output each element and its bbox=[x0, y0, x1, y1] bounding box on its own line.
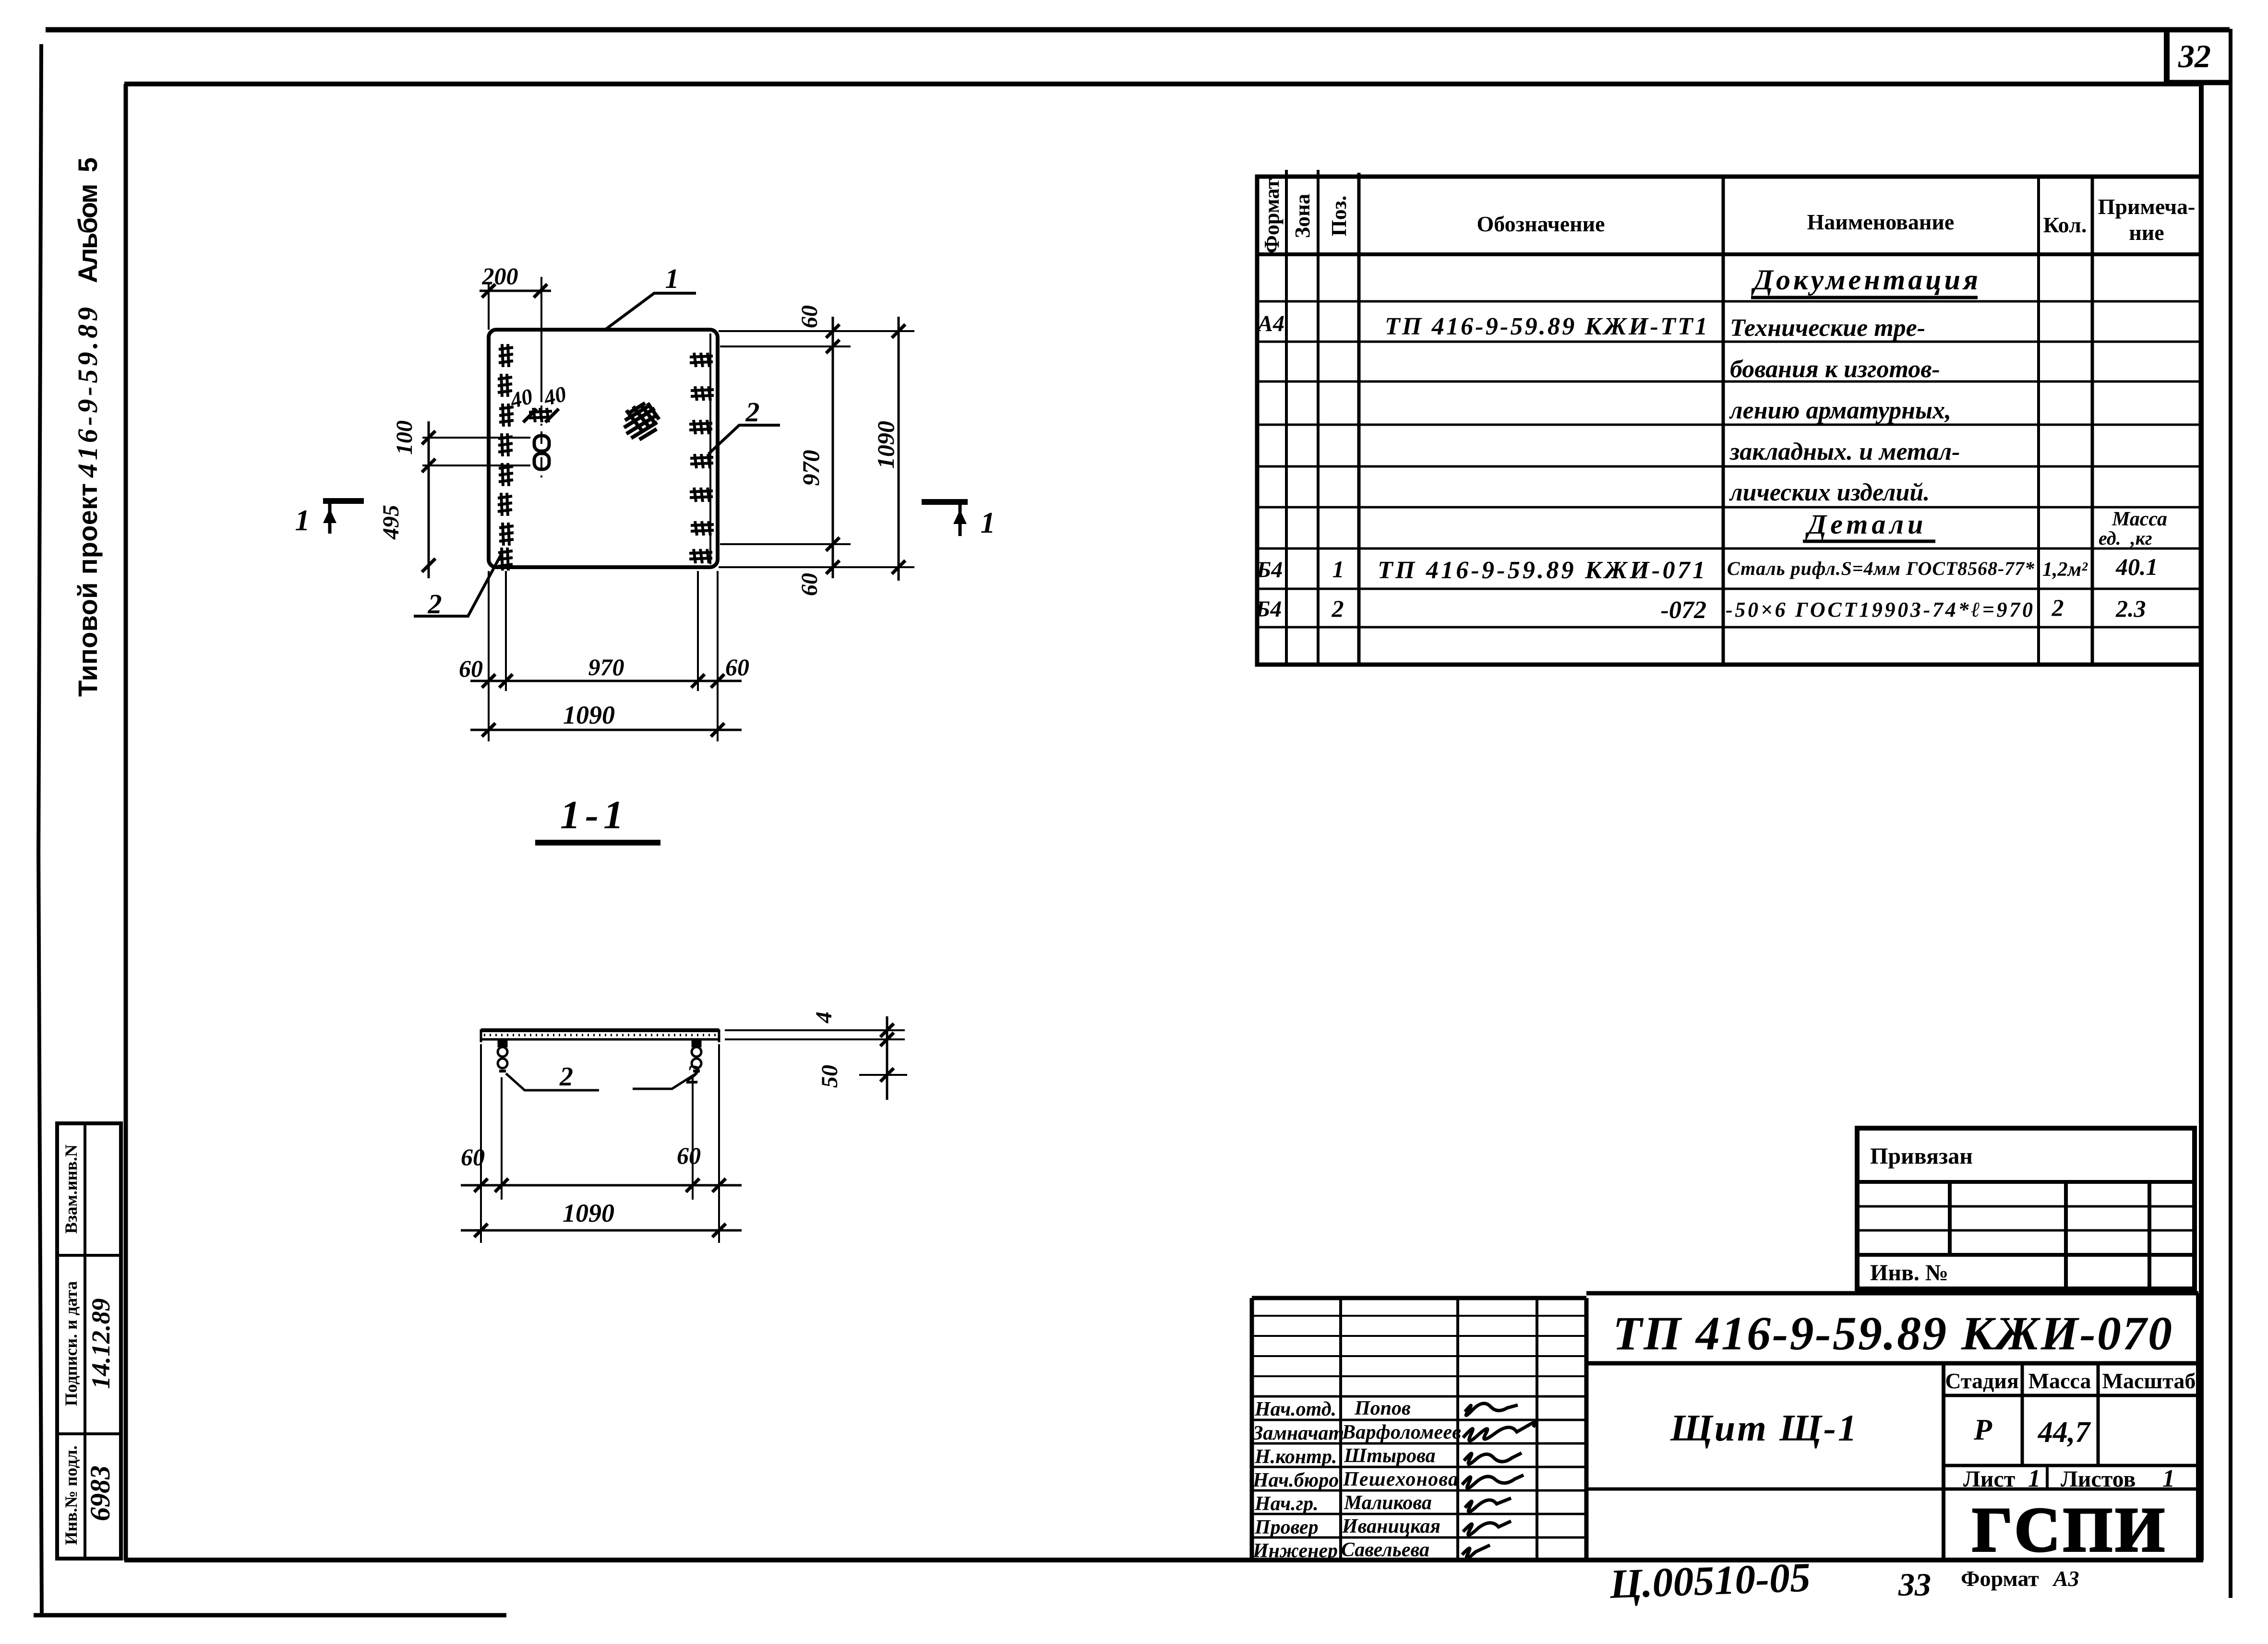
paper edge left line bbox=[38, 44, 42, 1616]
title block signature rows (names) bbox=[1252, 1397, 1461, 1562]
dim 1090 (bottom outer) bbox=[470, 701, 742, 737]
section leader 2 right bbox=[633, 1060, 700, 1090]
svg-text:Обозначение: Обозначение bbox=[1476, 212, 1605, 236]
leader 2 (plan bottom-left, pos.2) bbox=[414, 552, 503, 619]
centreline through embedded part bbox=[540, 277, 542, 482]
spec row: Detali heading and Massa ed kg bbox=[1803, 508, 2167, 549]
svg-text:Зона: Зона bbox=[1291, 194, 1314, 238]
svg-text:2: 2 bbox=[428, 588, 442, 619]
svg-text:ние: ние bbox=[2129, 220, 2164, 245]
section plate (pos.1) bbox=[481, 1029, 719, 1042]
svg-text:60: 60 bbox=[677, 1142, 701, 1169]
svg-text:Б4: Б4 bbox=[1255, 596, 1282, 622]
svg-text:А3: А3 bbox=[2052, 1566, 2079, 1591]
svg-text:1,2м²: 1,2м² bbox=[2042, 559, 2088, 581]
svg-text:Технические тре-: Технические тре- bbox=[1730, 314, 1925, 342]
svg-text:Детали: Детали bbox=[1805, 509, 1927, 540]
sheet number box (page 32) bbox=[2165, 30, 2231, 83]
leader 2 (plan right, pos.2) bbox=[708, 396, 780, 454]
svg-text:Б4: Б4 bbox=[1256, 557, 1283, 583]
svg-text:416-9-59.89: 416-9-59.89 bbox=[72, 307, 103, 478]
svg-text:1090: 1090 bbox=[872, 421, 899, 469]
svg-text:Провер: Провер bbox=[1254, 1516, 1319, 1538]
dim 60/970/60 (bottom inner) bbox=[459, 571, 749, 741]
title block name Shchit Shch-1 bbox=[1670, 1407, 1857, 1449]
svg-text:1: 1 bbox=[665, 263, 679, 294]
svg-text:Масштаб: Масштаб bbox=[2102, 1369, 2196, 1393]
svg-text:ГСПИ: ГСПИ bbox=[1972, 1494, 2168, 1565]
centre hatched patch bbox=[624, 403, 659, 440]
svg-text:Стадия: Стадия bbox=[1945, 1369, 2018, 1393]
svg-text:лических изделий.: лических изделий. bbox=[1729, 479, 1930, 506]
svg-text:44,7: 44,7 bbox=[2038, 1416, 2092, 1449]
panel plate outline (pos.1) bbox=[489, 330, 718, 567]
svg-text:Р: Р bbox=[1973, 1414, 1992, 1446]
left margin rotated text: Tipovoy proekt 416-9-59.89 Albom 5 bbox=[72, 157, 103, 697]
section title 1-1 bbox=[535, 793, 660, 843]
title block handwritten signatures bbox=[1462, 1404, 1536, 1558]
svg-text:2: 2 bbox=[1332, 595, 1344, 622]
svg-text:Попов: Попов bbox=[1354, 1397, 1411, 1419]
dim 200 (top) bbox=[480, 262, 551, 330]
spec row: Dokumentaciya heading bbox=[1751, 264, 1981, 298]
section dim 4 / 50 (right) bbox=[725, 1012, 907, 1100]
spec row: pos.2 -072 strap 50x6 bbox=[1255, 594, 2146, 624]
svg-text:200: 200 bbox=[482, 262, 518, 289]
svg-text:60: 60 bbox=[797, 573, 822, 596]
svg-text:60: 60 bbox=[725, 654, 749, 680]
svg-text:970: 970 bbox=[588, 654, 624, 680]
right anchor weld marks (pos.2) bbox=[689, 353, 714, 563]
dim 100 / 495 (left side) bbox=[378, 420, 530, 578]
svg-text:Примеча-: Примеча- bbox=[2098, 194, 2196, 219]
drawing frame bottom border bbox=[124, 1558, 2203, 1562]
svg-text:закладных. и метал-: закладных. и метал- bbox=[1729, 438, 1960, 465]
svg-text:Лист: Лист bbox=[1963, 1466, 2015, 1492]
svg-text:Инв. №: Инв. № bbox=[1870, 1260, 1948, 1286]
section dim 60/60 (bottom inner) bbox=[461, 1044, 742, 1243]
left anchor weld marks (pos.2) bbox=[498, 344, 514, 571]
svg-text:Нач.отд.: Нач.отд. bbox=[1254, 1398, 1336, 1420]
drawing frame left border bbox=[124, 84, 128, 1561]
svg-text:Взам.инв.N: Взам.инв.N bbox=[61, 1144, 81, 1234]
paper edge right line bbox=[2229, 29, 2232, 1598]
svg-text:32: 32 bbox=[2178, 38, 2211, 74]
svg-text:14.12.89: 14.12.89 bbox=[86, 1299, 115, 1389]
dim 60/970/60 (right inner) bbox=[719, 305, 914, 596]
specification table header labels bbox=[1260, 179, 2195, 253]
svg-text:40: 40 bbox=[541, 381, 569, 411]
svg-text:60: 60 bbox=[797, 305, 822, 328]
svg-text:Привязан: Привязан bbox=[1870, 1144, 1973, 1169]
svg-text:ед. ,кг: ед. ,кг bbox=[2099, 527, 2152, 549]
bottom notes Ts.00510-05, 33, Format A3 bbox=[1608, 1554, 2079, 1607]
title block grid bbox=[1252, 1293, 2198, 1561]
section dim 1090 (bottom outer) bbox=[461, 1199, 742, 1237]
left bottom stamp table (Vzam.inv.N / Podpisi i data / Inv.N podl.) bbox=[57, 1123, 121, 1559]
weld mark at centreline bbox=[523, 408, 559, 422]
svg-text:-072: -072 bbox=[1661, 596, 1706, 624]
section leader 2 left bbox=[506, 1062, 599, 1092]
svg-text:Штырова: Штырова bbox=[1344, 1445, 1436, 1467]
svg-text:1090: 1090 bbox=[563, 1199, 614, 1227]
svg-text:Иваницкая: Иваницкая bbox=[1342, 1515, 1440, 1537]
spec row: pos.1 KZhI-071 riffled steel plate bbox=[1256, 553, 2158, 584]
svg-text:60: 60 bbox=[459, 655, 483, 682]
svg-text:6983: 6983 bbox=[84, 1465, 116, 1521]
svg-text:100: 100 bbox=[392, 420, 417, 455]
svg-text:2: 2 bbox=[745, 396, 760, 428]
svg-text:Наименование: Наименование bbox=[1807, 210, 1955, 234]
svg-text:Ц.00510-05: Ц.00510-05 bbox=[1608, 1554, 1811, 1607]
svg-text:1: 1 bbox=[295, 504, 310, 537]
svg-text:бования к изготов-: бования к изготов- bbox=[1730, 356, 1940, 383]
specification table grid bbox=[1257, 170, 2201, 665]
svg-text:2.3: 2.3 bbox=[2115, 595, 2146, 622]
svg-text:Н.контр.: Н.контр. bbox=[1254, 1446, 1337, 1468]
drawing frame right border bbox=[2199, 83, 2204, 1561]
svg-text:лению арматурных,: лению арматурных, bbox=[1729, 397, 1951, 424]
svg-text:33: 33 bbox=[1898, 1566, 1931, 1603]
svg-text:ТП 416-9-59.89 КЖИ-071: ТП 416-9-59.89 КЖИ-071 bbox=[1378, 557, 1705, 584]
svg-text:Типовой проект: Типовой проект bbox=[72, 483, 103, 697]
svg-text:970: 970 bbox=[797, 450, 824, 486]
svg-text:Савельева: Савельева bbox=[1341, 1539, 1429, 1561]
svg-text:Формат: Формат bbox=[1961, 1566, 2039, 1591]
title block document code TP 416-9-59.89 KZhI-070 bbox=[1613, 1307, 2172, 1360]
Privyazan / Inv.No reference table bbox=[1857, 1128, 2195, 1289]
svg-text:А4: А4 bbox=[1256, 311, 1284, 336]
svg-text:ТП 416-9-59.89 КЖИ-ТТ1: ТП 416-9-59.89 КЖИ-ТТ1 bbox=[1385, 313, 1707, 340]
svg-text:Альбом 5: Альбом 5 bbox=[72, 157, 103, 283]
svg-text:Варфоломеев: Варфоломеев bbox=[1342, 1421, 1461, 1443]
svg-text:Поз.: Поз. bbox=[1327, 196, 1351, 237]
paper edge top line bbox=[46, 27, 2230, 33]
svg-text:40.1: 40.1 bbox=[2115, 553, 2158, 580]
svg-text:Документация: Документация bbox=[1751, 264, 1981, 296]
svg-text:1-1: 1-1 bbox=[560, 793, 628, 837]
svg-text:Замначат: Замначат bbox=[1252, 1422, 1344, 1444]
svg-text:Подписи. и дата: Подписи. и дата bbox=[61, 1281, 81, 1406]
svg-text:1: 1 bbox=[2162, 1465, 2175, 1492]
svg-text:ТП 416-9-59.89 КЖИ-070: ТП 416-9-59.89 КЖИ-070 bbox=[1613, 1307, 2172, 1360]
svg-text:-50×6 ГОСТ19903-74*ℓ=970: -50×6 ГОСТ19903-74*ℓ=970 bbox=[1726, 598, 2033, 621]
svg-text:Пешехонова: Пешехонова bbox=[1343, 1468, 1458, 1490]
svg-text:1: 1 bbox=[1332, 556, 1344, 583]
svg-text:Нач.бюро: Нач.бюро bbox=[1252, 1469, 1339, 1491]
svg-text:Кол.: Кол. bbox=[2043, 213, 2087, 237]
svg-text:1090: 1090 bbox=[563, 701, 615, 729]
svg-text:1: 1 bbox=[981, 507, 996, 539]
section bracket right (pos.2) bbox=[692, 1040, 701, 1071]
section bracket left (pos.2) bbox=[498, 1040, 507, 1071]
svg-text:Маликова: Маликова bbox=[1344, 1492, 1432, 1514]
svg-text:Инженер: Инженер bbox=[1252, 1540, 1338, 1562]
svg-text:Нач.гр.: Нач.гр. bbox=[1254, 1493, 1319, 1515]
svg-text:Сталь рифл.S=4мм ГОСТ8568-77*: Сталь рифл.S=4мм ГОСТ8568-77* bbox=[1727, 558, 2035, 579]
svg-text:60: 60 bbox=[461, 1144, 485, 1170]
dim 1090 (right outer) bbox=[872, 317, 905, 581]
section mark 1 (left) bbox=[295, 501, 364, 537]
title block stage/mass/scale cells and GSPI logo bbox=[1945, 1369, 2196, 1565]
svg-text:Щит Щ-1: Щит Щ-1 bbox=[1670, 1407, 1857, 1449]
svg-text:2: 2 bbox=[559, 1062, 573, 1092]
svg-text:Листов: Листов bbox=[2061, 1466, 2136, 1492]
svg-text:495: 495 bbox=[378, 505, 404, 540]
svg-text:2: 2 bbox=[2052, 594, 2064, 621]
drawing frame top border bbox=[124, 82, 2201, 86]
svg-text:Масса: Масса bbox=[2028, 1369, 2091, 1393]
dim 40 40 labels bbox=[507, 381, 569, 413]
leader 1 (plan, pos.1) bbox=[604, 263, 696, 331]
spec rows: A4 TP 416-9-59.89 KZhI-TT1 technical requirements bbox=[1256, 311, 1960, 506]
svg-text:1: 1 bbox=[2028, 1465, 2040, 1492]
paper edge bottom line bbox=[34, 1613, 506, 1618]
svg-text:4: 4 bbox=[811, 1012, 837, 1024]
section mark 1 (right) bbox=[922, 502, 996, 539]
svg-text:Инв.№ подл.: Инв.№ подл. bbox=[61, 1445, 81, 1545]
embedded part detail (pos.2 cross-piece) bbox=[534, 436, 549, 469]
svg-text:50: 50 bbox=[817, 1065, 842, 1088]
svg-text:Формат: Формат bbox=[1260, 179, 1284, 253]
